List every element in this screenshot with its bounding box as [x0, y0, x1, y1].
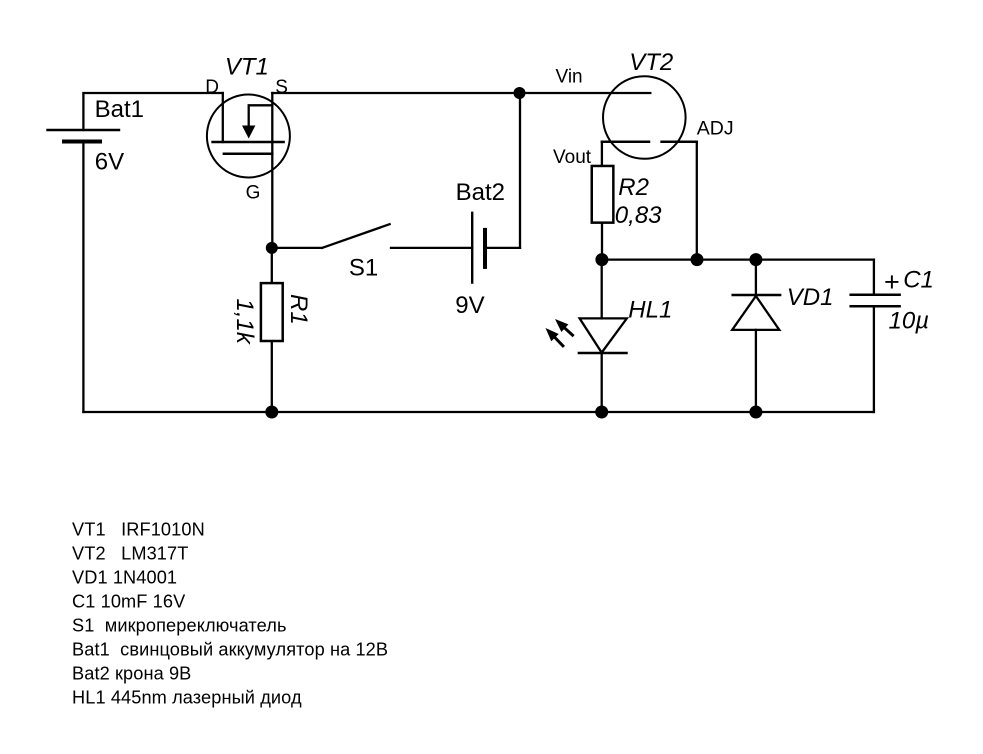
svg-text:VT2: VT2 [629, 49, 673, 76]
regulator VT2 [602, 76, 697, 159]
svg-text:Bat2 крона 9В: Bat2 крона 9В [72, 663, 191, 683]
svg-text:Bat2: Bat2 [456, 179, 505, 206]
svg-text:HL1 445nm лазерный диод: HL1 445nm лазерный диод [72, 687, 302, 707]
svg-text:VD1: VD1 [787, 284, 834, 311]
svg-text:R2: R2 [618, 174, 649, 201]
svg-text:S1 микропереключатель: S1 микропереключатель [72, 615, 287, 635]
node bottom junction below R1 [265, 406, 278, 419]
wire gate lead down to node [271, 154, 273, 248]
node dot VD1 rail [749, 253, 762, 266]
switch S1 blade [322, 224, 390, 248]
svg-text:C1: C1 [903, 267, 934, 294]
wire Bat2 branch vertical [519, 93, 521, 248]
battery Bat1 [48, 130, 120, 142]
svg-text:S1: S1 [349, 255, 378, 282]
parts list [72, 519, 388, 707]
wire from switch to Bat2 [391, 247, 472, 249]
wire middle rail [602, 258, 874, 260]
wire top-left from Bat1 to VT1 drain [83, 93, 222, 130]
svg-text:Vout: Vout [553, 147, 592, 168]
HL1 emission arrow upper [555, 319, 573, 335]
node dot Vout rail left [595, 253, 608, 266]
wire top from VT1 source to VT2 input [272, 92, 650, 94]
wire from node to switch [272, 247, 322, 249]
svg-text:+: + [884, 267, 900, 297]
svg-text:Bat1 свинцовый аккумулятор на: Bat1 свинцовый аккумулятор на 12В [72, 639, 388, 659]
resistor R1 [261, 248, 283, 412]
wire ADJ lead down [696, 142, 698, 260]
svg-text:1,1k: 1,1k [231, 299, 258, 346]
wire Vout lead to R2 [601, 142, 603, 165]
resistor R2 [592, 166, 614, 260]
LED HL1 (laser diode) [579, 260, 627, 412]
wire bottom rail [83, 411, 874, 413]
node gate junction dot [266, 242, 278, 254]
svg-text:6V: 6V [95, 149, 124, 176]
svg-text:VT2 LM317T: VT2 LM317T [72, 543, 188, 563]
svg-text:G: G [246, 183, 261, 204]
wire left vertical from Bat1 to bottom rail [82, 142, 84, 413]
svg-text:0,83: 0,83 [615, 202, 662, 229]
svg-text:HL1: HL1 [628, 296, 672, 323]
svg-text:9V: 9V [455, 292, 484, 319]
transistor VT1 (MOSFET) [207, 93, 290, 178]
capacitor C1 [851, 260, 900, 412]
svg-text:VT1 IRF1010N: VT1 IRF1010N [72, 519, 205, 539]
node dot ADJ rail [691, 253, 704, 266]
wire from Bat2 to branch vertical [485, 247, 520, 249]
node Vin junction dot [514, 87, 526, 99]
svg-text:C1 10mF 16V: C1 10mF 16V [72, 591, 186, 611]
battery Bat2 [472, 213, 485, 283]
svg-text:10µ: 10µ [889, 308, 930, 335]
node dot VD1 bottom [749, 406, 762, 419]
node dot HL1 bottom [595, 406, 608, 419]
svg-text:VD1 1N4001: VD1 1N4001 [72, 567, 177, 587]
svg-text:S: S [275, 77, 288, 98]
HL1 emission arrow lower [546, 328, 563, 346]
diode VD1 [732, 260, 780, 412]
svg-text:Vin: Vin [556, 66, 583, 87]
svg-text:D: D [205, 77, 219, 98]
svg-text:R1: R1 [285, 294, 312, 325]
svg-text:Bat1: Bat1 [95, 96, 144, 123]
svg-text:VT1: VT1 [225, 53, 269, 80]
svg-text:ADJ: ADJ [697, 118, 734, 140]
